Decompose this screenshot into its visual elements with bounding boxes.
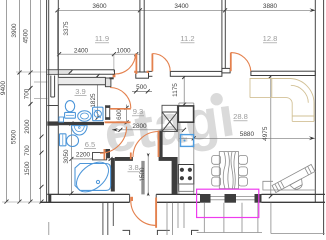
corridor wall piece	[105, 105, 107, 120]
balcony lines left	[103, 203, 113, 235]
dim 3375	[58, 10, 70, 70]
svg-text:3600: 3600	[92, 3, 107, 10]
balcony right wall	[271, 203, 325, 234]
label 6.5	[84, 140, 96, 149]
vent shaft in left wall	[51, 76, 55, 98]
ext 5880 left	[193, 122, 195, 139]
dim 4975	[262, 74, 273, 198]
svg-text:4500: 4500	[23, 29, 30, 44]
svg-text:3900: 3900	[11, 23, 18, 38]
left outer wall	[47, 0, 59, 203]
stove	[178, 165, 193, 192]
small shelf	[59, 117, 64, 122]
dim 2400/1000 line	[57, 47, 140, 56]
dim 3050	[63, 122, 73, 196]
door room 12.8	[231, 53, 251, 72]
svg-text:28.8: 28.8	[233, 112, 248, 121]
svg-text:3.9: 3.9	[75, 87, 86, 96]
svg-text:600: 600	[116, 109, 123, 120]
label 9.3	[132, 107, 144, 116]
dim 5880	[179, 131, 315, 141]
bathtub	[71, 156, 114, 197]
label 28.8	[233, 112, 248, 121]
dim 1175	[172, 75, 186, 107]
svg-text:2000: 2000	[24, 119, 31, 134]
dim 2800	[112, 123, 186, 132]
corridor bottom wall left piece	[115, 157, 133, 161]
door 3.8 leaf	[158, 131, 160, 157]
corridor bottom wall right piece	[159, 157, 177, 161]
door jamb stub 500	[136, 72, 149, 78]
balcony pier 3	[255, 194, 262, 203]
door jamb stub 12.8	[222, 68, 230, 73]
left ext line y202	[2, 201, 47, 203]
door 3.8 jamb	[130, 153, 132, 160]
svg-text:1000: 1000	[116, 47, 131, 54]
bathroom 3.9 top band	[58, 77, 109, 84]
svg-text:3050: 3050	[63, 149, 70, 164]
entrance door leaf	[155, 198, 157, 228]
bottom wall right segment	[262, 194, 326, 202]
svg-text:2200: 2200	[76, 152, 91, 159]
svg-text:3400: 3400	[174, 3, 189, 10]
right outer wall	[315, 0, 323, 235]
dim 600	[116, 105, 128, 125]
room 11.9 bottom wall	[58, 70, 114, 75]
svg-text:700: 700	[24, 145, 31, 156]
wall piece under 6.5 door	[105, 149, 110, 158]
sink 6.5	[72, 126, 88, 135]
svg-text:11.9: 11.9	[95, 34, 109, 43]
label 11.9	[95, 34, 109, 43]
door 6.5 arc	[100, 127, 127, 154]
balcony lines right of entrance	[177, 203, 179, 228]
label 11.2	[180, 34, 194, 43]
svg-text:4975: 4975	[262, 126, 269, 141]
stair corner 1	[123, 230, 130, 235]
balcony glazing	[197, 203, 262, 233]
6.5 right wall	[111, 158, 115, 192]
door room 11.2	[152, 54, 170, 72]
label 3.8	[128, 163, 140, 172]
entrance left jamb orange	[130, 197, 133, 201]
wall 3.9/6.5	[47, 122, 104, 125]
stair corner 3	[192, 230, 199, 235]
svg-text:1825: 1825	[90, 93, 97, 108]
door 9.3 leaf	[110, 108, 131, 110]
corner shelf 6.5	[93, 153, 107, 160]
desk niche rect	[263, 181, 315, 190]
balcony pier 2	[225, 194, 237, 203]
svg-text:2800: 2800	[132, 123, 147, 130]
chairs left	[212, 155, 221, 186]
corridor wall stub dark	[105, 78, 111, 87]
room 11.2 bottom wall	[149, 71, 222, 76]
svg-text:11.2: 11.2	[180, 34, 194, 43]
washing machine	[93, 107, 103, 121]
ext from top left corner	[56, 10, 58, 54]
wall between 11.2 and 12.8	[222, 0, 225, 68]
bottom-left wall corner blob	[49, 194, 52, 202]
kitchen sink square	[181, 135, 194, 147]
left chain 4500	[23, 0, 33, 204]
orange jamb marks	[134, 71, 137, 73]
dining table	[219, 152, 238, 189]
toilet 3.9	[65, 101, 76, 119]
ext door A left	[113, 54, 115, 72]
svg-text:3375: 3375	[63, 21, 70, 36]
svg-text:1175: 1175	[172, 83, 179, 97]
fridge	[178, 106, 193, 122]
door 3.8 arc	[133, 132, 159, 158]
balcony window 2	[236, 197, 255, 200]
door 3.9 leaf	[105, 121, 131, 123]
svg-text:500: 500	[136, 84, 147, 91]
label 12.8	[263, 34, 278, 43]
magenta highlight box	[197, 189, 259, 217]
wall stub below bottom-left corner	[48, 222, 50, 235]
watermark etagi	[100, 84, 238, 165]
3.8 left wall	[142, 161, 144, 195]
wardrobe	[162, 105, 177, 131]
left ext line y72	[16, 71, 72, 73]
label 3.9	[75, 87, 87, 96]
toilet 6.5	[60, 134, 79, 147]
left chain 3900/5500	[11, 0, 22, 204]
top dimension chain line	[55, 8, 315, 12]
svg-text:9.3: 9.3	[133, 107, 144, 116]
balcony pier 1	[200, 194, 211, 203]
kitchen/hall wall	[172, 157, 178, 194]
svg-text:1500: 1500	[139, 167, 146, 182]
svg-text:3.8: 3.8	[128, 163, 139, 172]
svg-text:2400: 2400	[74, 47, 89, 54]
dim 1825	[90, 74, 100, 120]
dim 2200	[69, 152, 112, 161]
kitchen vertical wall	[159, 131, 162, 157]
dim 500	[132, 84, 152, 94]
svg-text:5880: 5880	[240, 131, 255, 138]
door 6.5 jamb	[103, 149, 105, 160]
svg-text:1500: 1500	[24, 161, 31, 176]
sink 3.9	[78, 111, 92, 121]
svg-text:12.8: 12.8	[263, 34, 278, 43]
sofa corner	[250, 79, 314, 122]
door room 11.9	[115, 54, 136, 75]
entrance door arc	[131, 201, 156, 226]
chairs right	[239, 155, 248, 186]
dim 1500 bottom	[139, 153, 150, 196]
jamb orange left of 11.9 door	[113, 74, 116, 78]
bottom wall mid segment	[156, 194, 200, 202]
svg-text:9400: 9400	[0, 80, 7, 95]
door 9.3 arc	[110, 88, 131, 109]
balcony window 1	[211, 197, 225, 200]
left chain 700/2000/700/1500	[23, 0, 43, 204]
room 12.8 bottom wall	[251, 71, 315, 75]
left chain 9400	[0, 0, 8, 204]
svg-text:5500: 5500	[11, 129, 18, 144]
desk group	[272, 164, 318, 199]
wall between 11.9 and 11.2	[140, 0, 144, 72]
balcony lines mid	[167, 203, 173, 235]
svg-text:700: 700	[23, 88, 30, 99]
svg-text:6.5: 6.5	[85, 140, 96, 149]
stair corner 2	[157, 230, 169, 235]
svg-text:3880: 3880	[263, 3, 278, 10]
bottom wall left segment	[40, 194, 130, 202]
kitchen counter column	[179, 103, 194, 194]
